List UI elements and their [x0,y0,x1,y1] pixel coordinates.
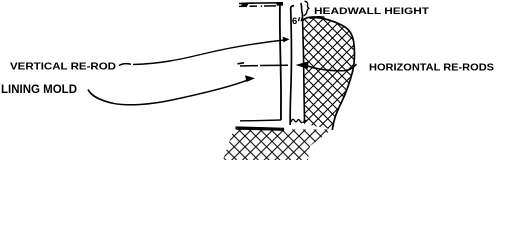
headwall front edge (vertical) [301,3,305,123]
lining mold arrowhead [245,75,255,82]
svg-text:HEADWALL HEIGHT: HEADWALL HEIGHT [314,6,429,17]
mid water dash line [240,64,288,67]
svg-text:6: 6 [292,16,297,27]
wall right line [290,6,294,125]
floor thick line [236,128,285,129]
svg-text:VERTICAL RE-ROD: VERTICAL RE-ROD [10,61,116,73]
dimension brace } [304,1,309,16]
headwall bulge outline [303,17,355,130]
vertical re-rod leader squiggle [119,64,131,66]
lining top line (wall base turns left) [240,119,281,122]
wall left line [280,3,281,121]
horizontal re-rods leader line [306,64,357,71]
headwall apex thick dash [310,16,325,19]
vertical re-rod arrowhead [283,37,290,43]
mid water line tick [238,63,245,64]
svg-text:LINING MOLD: LINING MOLD [1,82,77,96]
top water surface thick dash [242,3,249,5]
base squiggle at wall foot [291,119,302,123]
lining mold leader line [113,80,248,105]
ground cross-hatch [223,130,332,161]
vertical re-rod leader line [133,40,284,65]
lining mold leader hook [88,90,113,104]
top dash-dot line [239,5,276,8]
base arrow mark [303,120,307,123]
horizontal re-rods arrowhead [296,61,309,69]
svg-text:HORIZONTAL RE-RODS: HORIZONTAL RE-RODS [369,62,494,74]
headwall hatch fill [303,17,354,129]
wall top corner blob [277,2,284,6]
top water surface solid line [239,2,280,5]
